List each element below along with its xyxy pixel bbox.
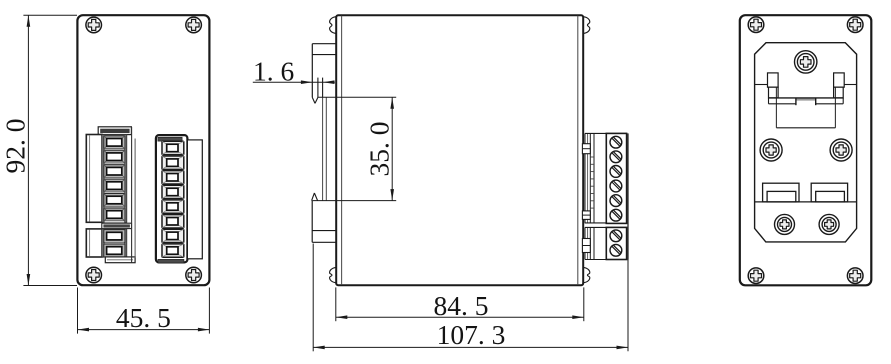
svg-text:92. 0: 92. 0 — [0, 119, 31, 174]
DIN clip right guide square — [834, 87, 844, 98]
rear view screw top-right — [847, 17, 863, 33]
front view screw bottom-left — [86, 267, 102, 283]
DIN clip bottom tab — [312, 201, 336, 243]
corner notch bottom-left — [330, 267, 337, 283]
left terminal block upper contact column — [102, 135, 127, 223]
rear connector latch tab upper — [582, 144, 590, 154]
rear foot right — [811, 183, 847, 202]
dimension 1.6 arrows — [301, 80, 335, 84]
rear view screw bottom-right — [847, 268, 863, 284]
dimension 1.6 leader line — [253, 81, 335, 83]
left terminal block housing upper — [86, 135, 102, 223]
dimension 107.3 extension lines — [313, 244, 628, 352]
dimension 45.5 line with arrows — [78, 328, 210, 332]
front view screw top-left — [86, 17, 102, 33]
rear connector base column upper — [585, 133, 606, 223]
svg-text:35. 0: 35. 0 — [363, 122, 394, 177]
dimension 84.5 extension lines — [336, 287, 584, 321]
DIN clip cross line — [755, 84, 857, 86]
DIN clip slider plate — [776, 88, 835, 128]
rear connector latch tab bottom group — [582, 239, 590, 253]
right terminal block contact cells — [162, 141, 184, 257]
right terminal block housing — [156, 135, 188, 262]
left terminal block lower contact column — [102, 229, 127, 258]
rear panel screw mid-left — [760, 139, 782, 161]
left terminal block bottom cap — [105, 257, 135, 263]
left terminal block divider cap — [102, 223, 132, 228]
dimension 35.0 extension top — [318, 96, 396, 98]
right terminal block bottom cap bar — [158, 259, 184, 263]
dimension 84.5 line with arrows — [336, 315, 584, 319]
terminal screw block lower (2 screws) — [606, 227, 626, 259]
left terminal block housing lower — [86, 229, 102, 257]
svg-text:107. 3: 107. 3 — [437, 319, 506, 350]
side view inner edge right — [577, 16, 579, 285]
DIN clip bottom spring chevron — [312, 193, 318, 201]
dimension 92.0 extension line top — [23, 14, 77, 16]
left terminal block side strip — [132, 127, 136, 263]
DIN clip step bar with centre recess — [769, 98, 844, 105]
svg-text:84. 5: 84. 5 — [434, 290, 489, 321]
right terminal block side panel — [187, 140, 202, 259]
corner notch bottom-right — [583, 267, 590, 283]
corner notch top-left — [330, 17, 337, 34]
DIN clip left post — [768, 73, 779, 87]
rear foot left — [763, 183, 799, 202]
right terminal block top cap bar — [158, 137, 182, 141]
dimension 92.0 line with arrows — [27, 15, 31, 285]
side view body outline — [336, 15, 583, 285]
rear inner panel outline — [755, 43, 857, 242]
corner notch top-right — [583, 17, 590, 34]
front view housing outline — [77, 15, 209, 285]
front view screw bottom-right — [186, 267, 202, 283]
rear view housing outline — [740, 15, 872, 285]
svg-text:45. 5: 45. 5 — [116, 302, 171, 333]
rear view screw bottom-left — [748, 268, 764, 284]
rear panel screw mid-right — [830, 139, 852, 161]
DIN clip top hook — [312, 44, 336, 104]
DIN clip slider lines — [323, 97, 327, 200]
terminal screw block upper (6 screws) — [606, 133, 626, 223]
rear connector latch tab lower — [582, 211, 590, 220]
dimension 45.5 extension lines — [78, 288, 210, 334]
rear view screw top-left — [748, 17, 764, 33]
dimension 107.3 line with arrows — [313, 346, 628, 350]
dimension 35.0 extension bottom — [312, 200, 396, 202]
rear connector outer flange line — [627, 133, 629, 259]
svg-text:1. 6: 1. 6 — [253, 55, 294, 86]
DIN clip measured lip lines (1.6) — [318, 78, 323, 98]
rear panel screw top-center — [795, 51, 817, 73]
front view screw top-right — [186, 17, 202, 33]
rear panel screw bottom-left — [775, 214, 795, 234]
DIN clip right post — [834, 73, 845, 87]
DIN clip left guide square — [769, 87, 779, 98]
side view inner edge left — [341, 16, 343, 285]
rear connector base column lower — [585, 227, 606, 259]
rear panel shelf line — [755, 201, 857, 203]
dimension 92.0 extension line bottom — [23, 285, 77, 287]
rear panel screw bottom-right — [819, 214, 839, 234]
left terminal block top cap — [98, 127, 131, 135]
dimension 35.0 line with arrows — [390, 97, 394, 200]
rear connector rack teeth — [590, 157, 594, 208]
